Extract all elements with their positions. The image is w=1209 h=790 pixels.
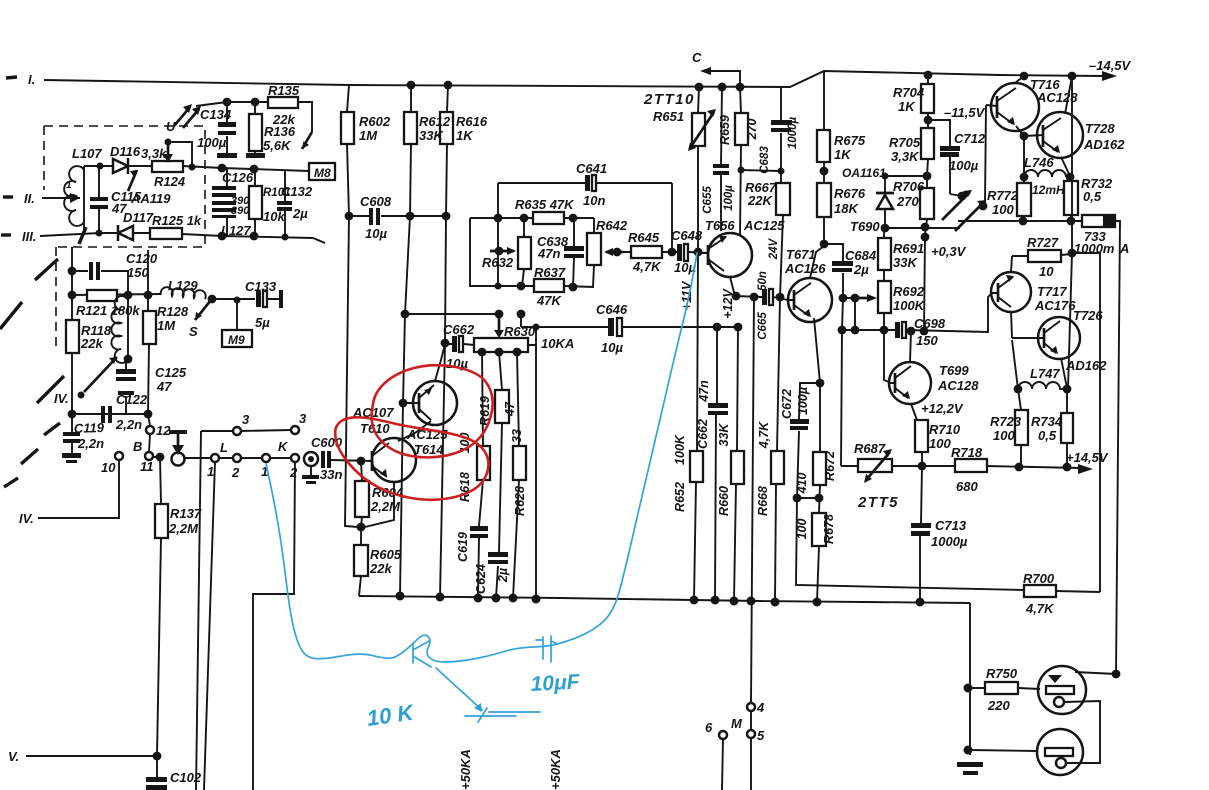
adjust arrows cluster — [950, 194, 962, 196]
svg-text:5µ: 5µ — [255, 315, 270, 330]
svg-text:D117: D117 — [123, 210, 154, 225]
capacitor C133 — [212, 298, 280, 300]
mechanical link dashes — [0, 259, 64, 487]
svg-text:47n: 47n — [537, 246, 560, 261]
svg-text:AC125: AC125 — [743, 218, 785, 233]
svg-text:270: 270 — [745, 119, 759, 141]
resistor R659 — [740, 87, 741, 235]
switch contact K2 — [291, 454, 299, 462]
capacitor C132 — [284, 171, 286, 237]
band III marker — [1, 233, 11, 236]
svg-text:L127: L127 — [221, 223, 251, 238]
resistor R101 — [254, 170, 256, 236]
long wire down mid — [204, 462, 215, 790]
svg-text:4,7K: 4,7K — [1025, 601, 1055, 616]
svg-text:L107: L107 — [72, 146, 102, 161]
svg-text:R602: R602 — [359, 114, 391, 129]
terminal 10 with band IV wire — [115, 452, 123, 460]
meter row — [958, 220, 1082, 222]
svg-text:50n: 50n — [757, 271, 769, 291]
svg-text:22k: 22k — [80, 336, 103, 351]
svg-text:22K: 22K — [747, 193, 773, 208]
red annotation loop upper — [372, 365, 493, 457]
svg-text:R706: R706 — [893, 179, 925, 194]
svg-text:390: 390 — [231, 205, 250, 217]
svg-text:1K: 1K — [456, 128, 474, 143]
svg-text:C712: C712 — [954, 131, 986, 146]
svg-text:C684: C684 — [845, 248, 877, 263]
wire band II tap — [42, 197, 80, 199]
svg-text:R687: R687 — [854, 441, 886, 456]
resistor R705 — [921, 128, 934, 159]
wire K2 down step — [253, 462, 295, 790]
capacitor C683 — [780, 87, 782, 183]
svg-text:R718: R718 — [951, 445, 983, 460]
resistor R676 — [823, 171, 825, 244]
svg-text:47: 47 — [503, 401, 517, 417]
adjust arrow on D116 — [128, 170, 137, 191]
svg-text:+12,2V: +12,2V — [921, 401, 964, 416]
svg-text:AC126: AC126 — [784, 261, 826, 276]
svg-text:100: 100 — [993, 428, 1015, 443]
potentiometer R651 — [698, 87, 699, 252]
svg-text:R128: R128 — [157, 304, 189, 319]
svg-text:L: L — [220, 440, 228, 455]
svg-text:R652: R652 — [673, 482, 687, 512]
svg-text:33n: 33n — [320, 467, 342, 482]
terminal 5 — [747, 730, 755, 738]
svg-text:R692: R692 — [893, 284, 925, 299]
svg-text:+50KA: +50KA — [548, 749, 563, 790]
transistor T656 — [708, 233, 752, 277]
capacitor C684 — [824, 244, 843, 298]
svg-text:T656: T656 — [705, 218, 735, 233]
resistor R718 — [955, 459, 987, 472]
svg-text:R723: R723 — [990, 414, 1022, 429]
resistor R605 — [359, 527, 361, 596]
svg-text:C133: C133 — [245, 279, 277, 294]
svg-text:M: M — [731, 716, 743, 731]
supply rail top — [349, 71, 1103, 87]
svg-text:2,2n: 2,2n — [77, 436, 104, 451]
svg-text:C713: C713 — [935, 518, 967, 533]
svg-text:C119: C119 — [74, 420, 105, 436]
svg-text:C641: C641 — [576, 161, 607, 176]
svg-text:1M: 1M — [157, 318, 176, 333]
svg-text:C132: C132 — [281, 184, 313, 199]
svg-text:3,3k: 3,3k — [141, 146, 167, 161]
resistor R727 — [1012, 254, 1072, 256]
capacitor C672 — [797, 383, 820, 498]
svg-text:2µ: 2µ — [292, 206, 308, 221]
+0,3V node — [921, 233, 930, 242]
blue transistor sketch — [413, 641, 482, 710]
svg-text:AA119: AA119 — [130, 191, 171, 206]
svg-text:1000µ: 1000µ — [931, 534, 968, 549]
resistor R652 column — [694, 252, 698, 600]
resistor R675 — [823, 72, 825, 171]
resistor R632 with arrow — [522, 218, 524, 286]
resistor R602 — [345, 85, 358, 527]
svg-text:11: 11 — [140, 459, 154, 474]
svg-text:4,7K: 4,7K — [757, 421, 771, 449]
svg-text:2: 2 — [231, 465, 240, 480]
terminal 11 — [145, 452, 153, 460]
ground bus — [359, 596, 970, 603]
resistor R635 row — [470, 217, 594, 219]
svg-text:C624: C624 — [474, 564, 488, 594]
svg-text:+0,3V: +0,3V — [931, 244, 967, 259]
terminal 4 — [747, 703, 755, 711]
svg-text:C665: C665 — [757, 312, 769, 340]
wire T716 emitter to L746 — [1023, 136, 1025, 177]
svg-text:33K: 33K — [419, 128, 444, 143]
svg-text:C608: C608 — [360, 194, 392, 209]
svg-text:R628: R628 — [513, 486, 527, 516]
svg-text:R660: R660 — [717, 486, 731, 516]
resistor R732 — [1070, 177, 1071, 221]
svg-text:–14,5V: –14,5V — [1089, 58, 1132, 73]
collector row y297 — [735, 296, 788, 300]
svg-text:R672: R672 — [823, 451, 837, 481]
svg-text:2: 2 — [289, 465, 298, 480]
capacitor C662 — [441, 339, 450, 348]
resistor R645 row with arrow — [606, 251, 623, 254]
svg-text:2,2M: 2,2M — [168, 521, 199, 536]
resistor R668 column — [775, 297, 780, 602]
chassis ground — [957, 762, 983, 767]
svg-text:C655: C655 — [702, 186, 714, 214]
wire AGC row — [196, 102, 298, 106]
wire zener top to R705 node — [885, 175, 927, 177]
capacitor C646 — [608, 318, 614, 336]
svg-text:C: C — [692, 50, 702, 65]
resistor R678 — [812, 513, 826, 546]
connector box M9 — [236, 300, 238, 330]
svg-text:OA1161: OA1161 — [842, 166, 886, 180]
wire C672 bottom to R700 — [796, 498, 1024, 590]
osc loop wires — [470, 218, 521, 286]
svg-text:AC128: AC128 — [937, 378, 979, 393]
resistor R604 — [361, 461, 362, 527]
svg-text:C120: C120 — [126, 251, 158, 266]
svg-text:C619: C619 — [456, 532, 470, 562]
potentiometer R687 — [841, 465, 858, 467]
svg-text:C122: C122 — [116, 392, 148, 407]
tuning arrows U — [174, 107, 199, 128]
resistor R128 — [148, 250, 149, 414]
svg-text:L747: L747 — [1030, 366, 1060, 381]
terminal 6 — [719, 731, 727, 739]
capacitor C655 — [721, 87, 722, 231]
resistor R700 — [1024, 585, 1056, 597]
input jack C600 — [304, 452, 318, 466]
capacitor C102 — [156, 756, 158, 777]
arrow S — [195, 300, 211, 320]
svg-text:R659: R659 — [718, 115, 732, 145]
svg-text:M8: M8 — [314, 166, 331, 180]
transistor T699 — [889, 362, 931, 404]
wire to R700 column — [1072, 253, 1100, 592]
resistor R723 — [1018, 389, 1021, 467]
svg-text:4,7K: 4,7K — [632, 259, 662, 274]
capacitor C698 row — [842, 294, 991, 332]
resistor R637 row — [521, 286, 594, 287]
svg-text:R700: R700 — [1023, 571, 1055, 586]
capacitor C119 — [71, 414, 73, 453]
svg-text:R121 180k: R121 180k — [76, 303, 140, 318]
svg-text:33: 33 — [510, 429, 524, 443]
svg-text:V.: V. — [8, 749, 19, 764]
svg-text:R678: R678 — [822, 514, 836, 544]
svg-text:R691: R691 — [893, 241, 924, 256]
svg-text:III.: III. — [22, 229, 36, 244]
svg-text:47K: 47K — [536, 293, 562, 308]
svg-text:T690: T690 — [850, 219, 880, 234]
svg-text:1: 1 — [207, 464, 214, 479]
svg-text:270: 270 — [896, 194, 919, 209]
coil L128 — [127, 295, 129, 359]
svg-text:0,5: 0,5 — [1038, 428, 1057, 443]
resistor R706 — [920, 188, 934, 219]
resistor R136 — [254, 102, 256, 153]
svg-text:100K: 100K — [893, 298, 926, 313]
label -11,5V and C712 — [928, 120, 950, 194]
svg-text:2µ: 2µ — [496, 568, 510, 583]
wire to T716 base — [985, 105, 986, 204]
resistor R691 — [883, 228, 885, 281]
resistor R667 — [776, 183, 790, 215]
capacitor C662b column — [715, 327, 717, 600]
svg-text:C662: C662 — [443, 322, 475, 337]
diode D116 — [84, 165, 152, 167]
capacitor C713 — [920, 466, 922, 602]
resistor R135 — [268, 97, 298, 108]
resistor R750 — [970, 688, 1040, 689]
column R618 C619 — [478, 352, 483, 598]
svg-text:R772: R772 — [987, 188, 1019, 203]
svg-text:T717: T717 — [1037, 284, 1067, 299]
svg-text:100µ: 100µ — [197, 135, 227, 150]
svg-text:1000µ: 1000µ — [787, 117, 799, 150]
svg-text:R705: R705 — [889, 135, 921, 150]
svg-text:R612: R612 — [419, 114, 451, 129]
column R628 — [513, 352, 519, 598]
svg-text:2,2M: 2,2M — [370, 499, 401, 514]
node R136 top — [251, 98, 260, 107]
capacitor C608 — [349, 215, 446, 217]
capacitor C665 — [762, 289, 767, 305]
svg-text:–11,5V: –11,5V — [944, 105, 986, 120]
svg-text:R676: R676 — [834, 186, 866, 201]
transistor T726 — [1038, 317, 1080, 359]
red annotation loop lower — [335, 417, 488, 499]
connector box M8 — [309, 163, 335, 180]
svg-text:6: 6 — [705, 720, 713, 735]
svg-text:C134: C134 — [200, 107, 232, 122]
node C134 top — [223, 98, 232, 107]
svg-text:II.: II. — [24, 191, 35, 206]
diode D117 — [118, 225, 133, 241]
wire emitter junction — [741, 170, 781, 171]
transistor T716 — [991, 83, 1039, 131]
svg-text:10: 10 — [1039, 264, 1054, 279]
transistor T671 — [788, 278, 832, 322]
svg-text:150: 150 — [916, 333, 938, 348]
capacitor C115 — [98, 166, 100, 233]
svg-text:5,6K: 5,6K — [263, 138, 292, 153]
svg-text:D116: D116 — [110, 144, 141, 159]
speaker jack 1 — [1038, 666, 1086, 714]
svg-text:M9: M9 — [228, 333, 245, 347]
potentiometer R630 — [474, 338, 528, 352]
terminal 12 B — [148, 414, 150, 452]
svg-text:33K: 33K — [893, 255, 918, 270]
svg-text:R137: R137 — [170, 506, 202, 521]
IF transformer C126 L127 — [226, 169, 228, 236]
wire C684 down — [841, 298, 843, 466]
wire band III — [40, 233, 118, 236]
svg-text:R642: R642 — [596, 218, 628, 233]
svg-text:R616: R616 — [456, 114, 488, 129]
resistor R710 — [915, 420, 928, 452]
wire C646 row — [521, 314, 738, 327]
svg-text:3: 3 — [299, 411, 307, 426]
svg-text:C683: C683 — [759, 146, 771, 174]
svg-text:10k: 10k — [263, 209, 285, 224]
svg-text:R675: R675 — [834, 133, 866, 148]
svg-text:10KA: 10KA — [541, 336, 574, 351]
wire zener bottom row — [885, 227, 960, 229]
output column to terminals — [751, 297, 754, 790]
svg-text:2,2n: 2,2n — [115, 417, 142, 432]
wire R687 to R718 — [892, 465, 955, 467]
capacitor C120 — [72, 271, 128, 293]
wire band I to rail — [44, 80, 349, 85]
svg-text:R605: R605 — [370, 547, 402, 562]
svg-text:0,5: 0,5 — [1083, 189, 1102, 204]
svg-text:1K: 1K — [898, 99, 916, 114]
svg-text:C125: C125 — [155, 365, 187, 380]
svg-text:T726: T726 — [1073, 308, 1103, 323]
svg-text:R750: R750 — [986, 666, 1018, 681]
resistor R612 — [407, 81, 416, 90]
svg-text:C126: C126 — [222, 170, 254, 185]
svg-text:47n: 47n — [697, 380, 711, 403]
R750 column — [969, 603, 971, 755]
svg-text:R668: R668 — [756, 486, 770, 516]
svg-text:R637: R637 — [534, 265, 566, 280]
resistor R616 — [444, 81, 453, 90]
svg-text:10n: 10n — [583, 193, 605, 208]
svg-text:3,3K: 3,3K — [891, 149, 920, 164]
switch row wires — [184, 457, 291, 459]
svg-text:5: 5 — [757, 728, 765, 743]
svg-text:R651: R651 — [653, 109, 684, 124]
T728 collector column — [1068, 76, 1072, 389]
transistor T717 — [991, 272, 1031, 312]
svg-text:1K: 1K — [834, 147, 852, 162]
capacitor C134 — [226, 102, 228, 153]
wire R124 to M8 — [183, 166, 309, 171]
svg-text:220: 220 — [987, 698, 1010, 713]
svg-text:R135: R135 — [268, 83, 300, 98]
band II marker — [3, 195, 13, 198]
svg-text:100K: 100K — [673, 434, 687, 465]
long wire down left — [196, 431, 201, 790]
svg-text:AC176: AC176 — [1034, 298, 1076, 313]
svg-text:R734: R734 — [1031, 414, 1063, 429]
svg-text:47: 47 — [156, 379, 172, 394]
svg-text:100µ: 100µ — [796, 387, 810, 415]
svg-text:C698: C698 — [914, 316, 946, 331]
svg-text:100µ: 100µ — [723, 185, 735, 211]
resistor R137 — [153, 457, 161, 756]
svg-text:10μF: 10μF — [530, 670, 581, 696]
resistor R660 column — [734, 327, 738, 601]
resistor R772 — [1023, 177, 1024, 221]
svg-text:410: 410 — [795, 473, 809, 495]
node R137 top — [156, 453, 165, 462]
svg-text:R136: R136 — [264, 124, 296, 139]
band line I marker — [6, 77, 17, 78]
svg-text:100: 100 — [929, 436, 951, 451]
svg-text:18K: 18K — [834, 201, 859, 216]
blue wire annotation main — [266, 253, 697, 662]
wire meter to speaker column — [1115, 221, 1120, 674]
capacitor C648 — [677, 244, 682, 261]
resistor R704 — [924, 71, 933, 80]
resistor R734 — [1066, 389, 1068, 467]
switch row 3 — [201, 430, 291, 431]
svg-text:R618: R618 — [458, 472, 472, 502]
resistor R118 — [66, 320, 79, 353]
svg-text:R727: R727 — [1027, 235, 1059, 250]
svg-text:IV.: IV. — [19, 511, 34, 526]
transistor T610 — [413, 381, 457, 425]
left verticals IF — [71, 247, 73, 414]
svg-text:L746: L746 — [1024, 155, 1054, 170]
svg-text:R635 47K: R635 47K — [515, 197, 575, 212]
resistor R642 — [593, 218, 594, 287]
svg-text:100: 100 — [992, 202, 1014, 217]
svg-text:22k: 22k — [369, 561, 392, 576]
svg-text:T699: T699 — [939, 363, 969, 378]
blue capacitor sketch — [536, 636, 558, 662]
svg-text:2µ: 2µ — [853, 262, 869, 277]
svg-text:C662: C662 — [696, 419, 710, 449]
svg-text:2TT5: 2TT5 — [857, 494, 899, 511]
svg-text:S: S — [189, 324, 198, 339]
svg-text:T671: T671 — [786, 247, 816, 262]
svg-text:10: 10 — [101, 460, 116, 475]
switch contact L2 — [233, 454, 241, 462]
svg-text:100µ: 100µ — [949, 158, 979, 173]
resistor R124 with arrow — [152, 161, 183, 172]
svg-text:4: 4 — [756, 700, 765, 715]
svg-text:C646: C646 — [596, 302, 628, 317]
resistor R692 — [878, 281, 891, 313]
wire lower mixer row — [182, 234, 325, 243]
resistor 410 column — [819, 383, 820, 513]
svg-text:R710: R710 — [929, 422, 961, 437]
svg-text:I.: I. — [28, 72, 35, 87]
switch contact K1 — [262, 454, 270, 462]
capacitor C638 — [573, 218, 574, 287]
column R619 C624 — [496, 352, 502, 598]
transistor T728 — [1037, 112, 1083, 158]
wire R692 arrow feed — [843, 298, 855, 330]
